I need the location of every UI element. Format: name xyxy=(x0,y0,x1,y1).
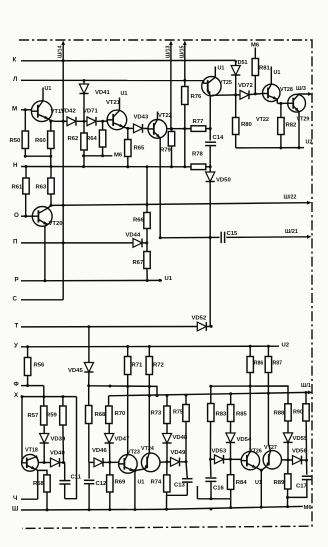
svg-text:К: К xyxy=(13,56,17,63)
resistor R50 xyxy=(10,110,29,158)
svg-text:R56: R56 xyxy=(34,363,46,369)
svg-text:VT28: VT28 xyxy=(280,87,293,93)
svg-text:VT20: VT20 xyxy=(49,221,64,227)
svg-text:R61: R61 xyxy=(12,185,24,191)
resistor R57 xyxy=(28,397,48,434)
transistor VT27 xyxy=(260,445,282,472)
svg-text:R67: R67 xyxy=(133,260,145,266)
connector Sh/22 arrow xyxy=(284,195,312,205)
svg-text:C12: C12 xyxy=(96,481,108,487)
svg-text:R75: R75 xyxy=(173,410,183,416)
resistor R60 xyxy=(35,121,54,166)
svg-text:Ш/14: Ш/14 xyxy=(58,45,64,58)
wire F corner xyxy=(43,386,45,397)
wire VT24 to VD49 xyxy=(160,460,171,463)
svg-text:VD52: VD52 xyxy=(192,316,207,322)
resistor R66 xyxy=(133,167,150,243)
net U1 emitters VT23/24 xyxy=(135,471,145,510)
resistor R76 xyxy=(182,80,202,166)
wire C14 column xyxy=(209,140,211,142)
wire R72col to VT24 xyxy=(148,386,150,453)
svg-text:U2: U2 xyxy=(282,343,290,349)
wire M6 stub xyxy=(84,153,123,159)
svg-text:М6: М6 xyxy=(114,153,123,159)
transistor VT21 xyxy=(106,98,128,130)
svg-text:У: У xyxy=(14,342,18,349)
svg-text:C11: C11 xyxy=(71,475,82,481)
capacitor C16 xyxy=(205,459,224,500)
node M xyxy=(12,105,31,112)
svg-text:VD72: VD72 xyxy=(238,83,253,89)
wire VT18 base column xyxy=(21,397,23,458)
node K xyxy=(13,56,236,63)
svg-text:R63: R63 xyxy=(36,185,48,191)
diode VD42 xyxy=(61,109,76,126)
svg-text:R79: R79 xyxy=(160,148,172,154)
svg-text:Ш/13: Ш/13 xyxy=(166,45,172,58)
svg-text:VT18: VT18 xyxy=(25,448,38,454)
net U1 stub VT28 xyxy=(274,70,281,76)
svg-text:R84: R84 xyxy=(236,480,248,486)
svg-text:R86: R86 xyxy=(254,361,264,367)
svg-text:VD41: VD41 xyxy=(95,90,110,96)
resistor R85 xyxy=(228,394,248,433)
wire VD46 line xyxy=(89,461,119,464)
frame dash-dot border xyxy=(19,40,312,528)
svg-text:Л: Л xyxy=(13,76,17,83)
node S xyxy=(13,295,64,302)
resistor R86 xyxy=(247,346,263,386)
svg-text:VD49: VD49 xyxy=(171,450,186,456)
transistor VT23 xyxy=(119,450,140,474)
resistor R82 xyxy=(278,103,297,147)
diode VD45 xyxy=(68,327,94,388)
diode VD48 xyxy=(162,434,188,462)
transistor VT24 xyxy=(133,446,160,472)
svg-text:Т: Т xyxy=(15,323,19,330)
svg-text:VD53: VD53 xyxy=(212,449,227,455)
svg-text:VD50: VD50 xyxy=(216,178,231,184)
capacitor C17 xyxy=(288,460,312,497)
wire Sh21 line xyxy=(159,236,308,239)
transistor VT29 xyxy=(288,94,310,148)
resistor R70 xyxy=(106,396,126,434)
node T xyxy=(15,323,213,330)
transistor VT28 xyxy=(263,67,293,104)
svg-text:C15: C15 xyxy=(227,231,239,237)
svg-text:R70: R70 xyxy=(115,411,127,417)
transistor VT25 xyxy=(202,67,232,129)
wire R50-R60 bottoms xyxy=(25,155,51,157)
svg-text:VT22: VT22 xyxy=(256,117,269,123)
resistor R75 xyxy=(173,395,189,462)
svg-text:R74: R74 xyxy=(151,480,163,486)
capacitor C11 xyxy=(59,463,81,499)
node F xyxy=(14,381,44,388)
svg-text:R66: R66 xyxy=(133,218,145,224)
resistor R87 xyxy=(265,346,282,393)
svg-text:U1: U1 xyxy=(274,70,281,76)
diode VD52 xyxy=(192,316,207,331)
connector Sh/15 column xyxy=(180,41,187,81)
svg-text:R64: R64 xyxy=(86,136,98,142)
resistor R77 xyxy=(191,119,212,141)
svg-text:VD71: VD71 xyxy=(83,109,98,115)
svg-text:R81: R81 xyxy=(259,66,271,72)
wire VT25 emitter to VD72 xyxy=(212,92,257,96)
svg-text:R65: R65 xyxy=(134,146,146,152)
node X xyxy=(14,392,77,399)
resistor R80 xyxy=(233,95,253,148)
resistor R68 xyxy=(86,386,107,463)
svg-text:R78: R78 xyxy=(192,152,204,158)
resistor R67 xyxy=(133,243,151,281)
connector Sh/13 column xyxy=(166,41,173,130)
node U(y) xyxy=(14,342,290,349)
svg-text:С: С xyxy=(13,295,18,302)
resistor R74 xyxy=(151,462,171,509)
svg-text:R73: R73 xyxy=(151,411,163,417)
svg-text:Н: Н xyxy=(13,162,18,169)
node Sh / M6 rail xyxy=(12,505,312,513)
wire lineA left xyxy=(89,385,157,396)
diode VD49 xyxy=(171,450,188,466)
svg-text:U1: U1 xyxy=(121,91,128,97)
capacitor C15 xyxy=(221,231,238,243)
diode VD56 xyxy=(292,449,308,465)
svg-text:VD45: VD45 xyxy=(68,368,83,374)
node O xyxy=(14,212,33,219)
transistor VT19 xyxy=(31,88,65,122)
svg-text:R89: R89 xyxy=(274,480,286,486)
resistor R65 xyxy=(125,128,145,166)
svg-text:U1: U1 xyxy=(255,480,262,486)
resistor R72 xyxy=(146,347,164,387)
svg-text:R90: R90 xyxy=(293,410,303,416)
resistor R78 xyxy=(191,152,206,170)
svg-text:Ш/1: Ш/1 xyxy=(301,383,311,389)
diode VD54 xyxy=(226,433,252,459)
wire lineA right xyxy=(209,385,288,404)
svg-text:R77: R77 xyxy=(193,119,205,125)
wire bracket C16 xyxy=(197,486,230,508)
diode VD53 xyxy=(210,449,241,464)
svg-text:VT21: VT21 xyxy=(106,100,121,106)
resistor R61 xyxy=(12,167,30,217)
node N xyxy=(13,162,212,169)
connector Sh/1 arrow xyxy=(301,383,313,394)
diode VD72 xyxy=(238,83,263,99)
svg-text:R71: R71 xyxy=(132,363,144,369)
resistor R63 xyxy=(36,167,55,206)
svg-text:VT24: VT24 xyxy=(141,446,154,452)
svg-text:R88: R88 xyxy=(274,411,286,417)
svg-text:R85: R85 xyxy=(236,412,248,418)
wire VD42 line xyxy=(49,120,107,123)
diode VD44 xyxy=(126,233,143,248)
svg-text:R62: R62 xyxy=(68,136,80,142)
label VT22 net xyxy=(256,117,269,123)
wire R86col to VT26 xyxy=(249,386,251,451)
svg-text:Ш/22: Ш/22 xyxy=(284,195,297,201)
svg-text:R50: R50 xyxy=(10,138,22,144)
diode VD51 xyxy=(231,60,247,95)
wire VT22 right to R77 xyxy=(167,127,191,130)
diode VD55 xyxy=(283,433,308,460)
wire R71col to VT23 xyxy=(127,386,129,454)
svg-text:R72: R72 xyxy=(153,363,165,369)
diode VD39 xyxy=(40,434,66,465)
node L xyxy=(13,76,204,83)
transistor VT22 xyxy=(148,112,173,238)
svg-text:U1: U1 xyxy=(45,86,52,92)
svg-text:VT22: VT22 xyxy=(158,113,173,119)
svg-text:C17: C17 xyxy=(296,484,308,490)
connector Sh/14 column xyxy=(58,41,66,300)
diode VD50 xyxy=(206,167,232,327)
net U1 emitters VT26/27 xyxy=(255,470,262,507)
svg-text:C14: C14 xyxy=(213,135,225,141)
svg-text:R76: R76 xyxy=(191,94,203,100)
diode VD43 xyxy=(126,115,149,133)
svg-text:Ш: Ш xyxy=(12,506,18,513)
node R(er) xyxy=(15,276,173,283)
capacitor C13 xyxy=(174,462,193,496)
resistor R88 xyxy=(274,404,292,433)
node Ch xyxy=(13,495,38,502)
wire R87col to VT27 xyxy=(268,393,270,451)
resistor R59 xyxy=(46,397,66,464)
svg-text:О: О xyxy=(14,212,19,219)
resistor R56 xyxy=(24,347,45,386)
svg-text:R82: R82 xyxy=(286,123,298,129)
resistor R89 xyxy=(274,460,292,507)
svg-text:U1: U1 xyxy=(218,66,225,72)
svg-text:R69: R69 xyxy=(115,480,127,486)
svg-text:R80: R80 xyxy=(241,122,253,128)
resistor R58 xyxy=(33,470,50,510)
transistor VT18 xyxy=(22,448,45,500)
svg-text:VT23: VT23 xyxy=(127,450,140,456)
svg-text:U1: U1 xyxy=(138,480,145,486)
resistor R69 xyxy=(107,462,126,509)
svg-text:R59: R59 xyxy=(46,413,58,419)
svg-text:Ш/3: Ш/3 xyxy=(296,86,306,92)
diode VD46 xyxy=(92,448,107,467)
svg-text:R58: R58 xyxy=(33,481,45,487)
wire VT28em to VT29 base xyxy=(277,102,288,105)
capacitor C14 xyxy=(205,135,224,167)
svg-text:VT29: VT29 xyxy=(297,117,310,123)
diode VD41 xyxy=(79,81,110,122)
svg-text:Ч: Ч xyxy=(13,495,17,502)
svg-text:Ш/21: Ш/21 xyxy=(285,229,298,235)
transistor VT26 xyxy=(241,449,262,471)
svg-text:Ф: Ф xyxy=(14,381,20,388)
svg-text:Ш/15: Ш/15 xyxy=(180,45,186,58)
resistor R62 xyxy=(68,121,88,166)
wire Sh22 line xyxy=(50,203,309,207)
wire VT27 to VD56 xyxy=(282,459,293,462)
diode VD47 xyxy=(105,434,130,463)
svg-text:VD43: VD43 xyxy=(134,115,149,121)
capacitor C12 xyxy=(84,462,107,509)
svg-text:VT26: VT26 xyxy=(249,449,262,455)
connector Sh/3 arrow xyxy=(296,86,313,96)
svg-text:VD42: VD42 xyxy=(61,109,76,115)
svg-text:C13: C13 xyxy=(174,483,186,489)
transistor VT20 xyxy=(32,205,63,280)
diode VD40 xyxy=(44,451,65,467)
svg-text:R83: R83 xyxy=(216,412,228,418)
resistor R84 xyxy=(227,459,247,493)
resistor R81 xyxy=(251,43,271,94)
net U1 stub VT19 xyxy=(45,86,52,92)
diode VD71 xyxy=(83,109,98,126)
resistor R71 xyxy=(125,347,144,387)
net U1 stub VT25 xyxy=(218,66,225,72)
wire X drop to Ch level xyxy=(65,397,77,499)
svg-text:Р: Р xyxy=(15,276,19,283)
resistor R64 xyxy=(86,121,106,157)
svg-text:VT25: VT25 xyxy=(219,80,232,86)
svg-text:VD51: VD51 xyxy=(234,60,248,66)
connector Sh/21 arrow xyxy=(285,229,312,239)
net U1 stub VT21 xyxy=(121,91,128,97)
svg-text:R57: R57 xyxy=(28,413,40,419)
svg-text:R87: R87 xyxy=(273,361,283,367)
resistor R83 xyxy=(208,386,227,461)
svg-text:U1: U1 xyxy=(165,276,173,282)
svg-text:VD46: VD46 xyxy=(92,448,107,454)
svg-text:VD56: VD56 xyxy=(292,449,307,455)
wire C13 bracket xyxy=(167,494,188,496)
svg-text:R60: R60 xyxy=(35,138,47,144)
net U2 rail right xyxy=(236,140,313,150)
svg-text:R68: R68 xyxy=(95,412,107,418)
node P(pi) xyxy=(13,239,148,246)
svg-text:U2: U2 xyxy=(306,140,313,146)
svg-text:VD40: VD40 xyxy=(50,451,65,457)
svg-text:М6: М6 xyxy=(304,505,313,511)
svg-text:C16: C16 xyxy=(213,486,225,492)
wire lineB Sh/1 xyxy=(109,391,309,397)
svg-text:VD44: VD44 xyxy=(126,233,141,239)
resistor R79 xyxy=(160,128,175,167)
svg-text:П: П xyxy=(13,239,18,246)
svg-text:М: М xyxy=(12,105,17,112)
resistor R73 xyxy=(151,396,171,434)
resistor R90 xyxy=(293,393,309,461)
